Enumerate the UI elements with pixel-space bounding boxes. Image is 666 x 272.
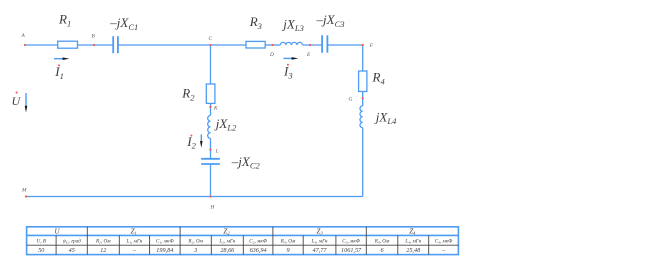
svg-text:H: H — [210, 205, 216, 211]
svg-text:45: 45 — [69, 247, 75, 254]
svg-text:jXL4: jXL4 — [374, 109, 397, 126]
svg-text:M: M — [21, 188, 27, 194]
svg-text:636,94: 636,94 — [250, 247, 267, 254]
svg-text:I2: I2 — [186, 134, 196, 151]
svg-text:–: – — [441, 247, 446, 254]
svg-text:C3, мкФ: C3, мкФ — [342, 238, 361, 244]
svg-text:F: F — [369, 43, 374, 49]
svg-text:C1, мкФ: C1, мкФ — [156, 238, 175, 244]
svg-text:R2, Ом: R2, Ом — [187, 238, 203, 244]
svg-text:R1, Ом: R1, Ом — [95, 238, 111, 244]
svg-text:L3, мГн: L3, мГн — [311, 238, 328, 244]
svg-text:L1, мГн: L1, мГн — [125, 238, 142, 244]
svg-text:B: B — [92, 34, 96, 40]
svg-text:A: A — [21, 33, 26, 39]
svg-text:C: C — [209, 36, 213, 42]
svg-text:L2, мГн: L2, мГн — [218, 238, 235, 244]
svg-text:jXL3: jXL3 — [281, 16, 304, 33]
svg-text:R3: R3 — [249, 14, 262, 31]
svg-text:199,84: 199,84 — [156, 247, 173, 254]
svg-text:12: 12 — [100, 247, 106, 254]
svg-text:C2, мкФ: C2, мкФ — [249, 238, 268, 244]
svg-text:I1: I1 — [54, 64, 64, 81]
svg-text:Z4: Z4 — [409, 228, 416, 236]
svg-text:L4, мГн: L4, мГн — [404, 238, 421, 244]
svg-text:R2: R2 — [181, 86, 195, 103]
svg-text:R4: R4 — [372, 70, 386, 87]
svg-text:G: G — [349, 97, 353, 103]
svg-text:28,66: 28,66 — [220, 247, 235, 254]
svg-text:L: L — [215, 149, 219, 155]
svg-text:Z2: Z2 — [223, 228, 230, 236]
svg-text:U: U — [54, 228, 60, 236]
svg-text:C4, мкФ: C4, мкФ — [435, 238, 454, 244]
svg-text:25,48: 25,48 — [406, 247, 421, 254]
svg-text:I3: I3 — [283, 64, 293, 81]
svg-text:3: 3 — [193, 247, 197, 254]
svg-text:9: 9 — [286, 247, 289, 254]
svg-text:R4, Ом: R4, Ом — [374, 238, 390, 244]
svg-text:jXL2: jXL2 — [214, 116, 237, 133]
svg-text:Z3: Z3 — [317, 228, 324, 236]
svg-text:E: E — [306, 52, 311, 58]
svg-text:1061,57: 1061,57 — [341, 247, 362, 254]
svg-text:47,77: 47,77 — [313, 247, 328, 254]
svg-text:–jXC2: –jXC2 — [231, 154, 261, 171]
svg-text:Z1: Z1 — [131, 228, 137, 236]
svg-text:–: – — [132, 247, 137, 254]
svg-text:6: 6 — [380, 247, 384, 254]
svg-text:–jXC3: –jXC3 — [316, 12, 345, 29]
svg-text:R1: R1 — [58, 12, 71, 29]
svg-text:–jXC1: –jXC1 — [109, 15, 138, 32]
svg-text:ψU, град: ψU, град — [63, 237, 82, 244]
svg-text:50: 50 — [38, 247, 45, 254]
svg-text:U: U — [12, 94, 22, 108]
svg-text:K: K — [213, 106, 218, 112]
svg-text:D: D — [269, 52, 274, 58]
svg-text:U, В: U, В — [37, 238, 47, 244]
svg-text:R3, Ом: R3, Ом — [280, 238, 296, 244]
